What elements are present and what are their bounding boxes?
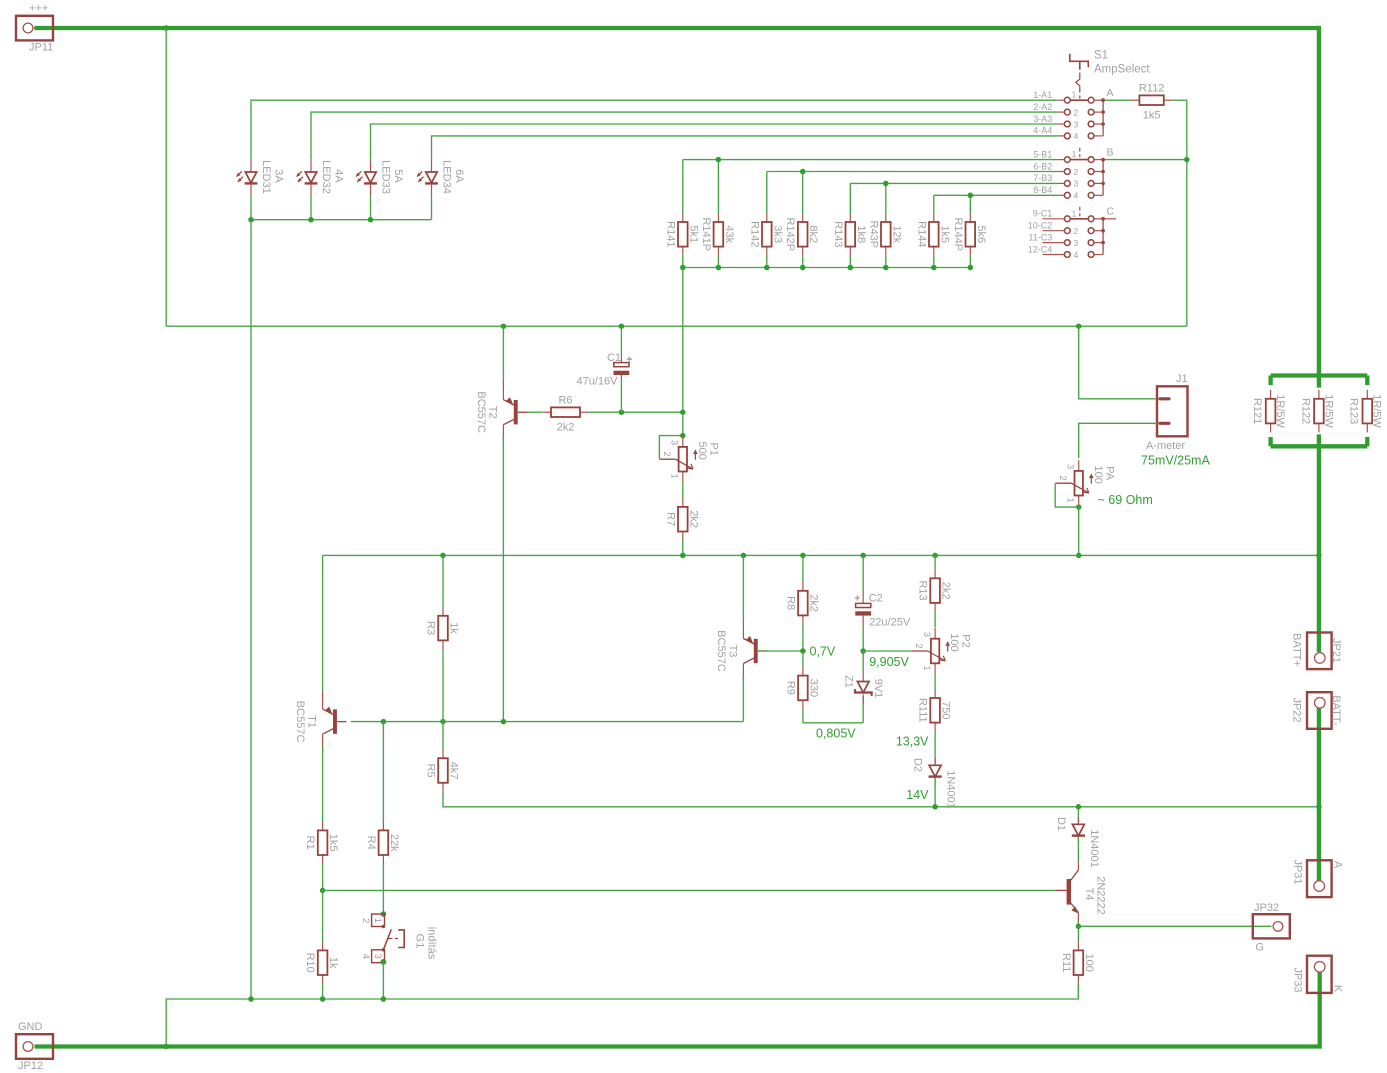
- wire R111 bottom to D2: [934, 732, 936, 765]
- resistor R43P 12k: [885, 213, 887, 222]
- wire shunt top bus: [1271, 373, 1368, 377]
- resistor R8 2k2: [802, 582, 804, 591]
- junction lower rail R8: [800, 553, 806, 559]
- svg-text:1N4001: 1N4001: [945, 770, 957, 809]
- wire R144 top: [933, 195, 935, 213]
- connector JP31 A: [1307, 860, 1332, 897]
- svg-text:2: 2: [1074, 226, 1079, 236]
- wire shunt bottom bus: [1271, 444, 1368, 448]
- switch contact 4-A4: [1057, 135, 1064, 137]
- wire R43P top: [885, 183, 887, 213]
- svg-text:3: 3: [1064, 464, 1075, 469]
- junction R43P top: [883, 181, 889, 187]
- wire LED cathode bus: [251, 219, 432, 221]
- transistor T1 BC557C: [333, 709, 337, 733]
- svg-text:3: 3: [1074, 119, 1079, 129]
- wire +V right vertical lower to JP21: [1317, 434, 1321, 652]
- resistor R123 1R/5W: [1366, 390, 1368, 399]
- svg-text:10-C2: 10-C2: [1028, 221, 1053, 231]
- wire PA wiper bypass to pin1: [1055, 483, 1079, 507]
- svg-text:1R/5W: 1R/5W: [1274, 394, 1286, 428]
- svg-text:JP31: JP31: [1292, 859, 1304, 884]
- resistor R3 1k: [442, 607, 444, 616]
- svg-text:GND: GND: [18, 1021, 43, 1033]
- svg-text:R112: R112: [1139, 83, 1164, 95]
- wire shunt top bus left stub: [1268, 376, 1272, 386]
- wire J1 pin2 to PA pin3: [1079, 423, 1157, 458]
- wire B output to right vertical: [1105, 159, 1187, 161]
- svg-text:A: A: [1107, 87, 1114, 99]
- junction R144P top: [968, 193, 974, 199]
- wire R13 bottom to P2: [934, 612, 936, 628]
- wire LED bus down to GND bus: [250, 220, 252, 999]
- wire R143 top: [849, 183, 851, 213]
- switch S1 actuator symbol: [1070, 54, 1089, 70]
- diode D1 1N4001: [1077, 817, 1079, 825]
- svg-text:3-A3: 3-A3: [1033, 114, 1052, 124]
- svg-text:R4: R4: [365, 836, 377, 850]
- wire network output down to P1: [682, 268, 684, 436]
- svg-text:K: K: [1332, 985, 1344, 993]
- wire R142 bottom: [766, 256, 768, 268]
- wire 2-A2 net to LED32: [311, 112, 1057, 160]
- resistor R141P 43k: [717, 213, 719, 222]
- wire net 7-B3: [850, 182, 1057, 184]
- resistor R142 3k3: [766, 213, 768, 222]
- svg-text:2: 2: [1057, 476, 1068, 481]
- switch contact 10-C2: [1043, 230, 1065, 232]
- junction network bus R143: [848, 265, 854, 271]
- wire mid rail to J1 pin1: [1079, 326, 1157, 399]
- svg-text:R123: R123: [1348, 398, 1360, 424]
- svg-text:T3: T3: [726, 645, 738, 658]
- switch contact 9-C1: [1043, 218, 1065, 220]
- switch contact 2-A2: [1057, 111, 1064, 113]
- svg-text:2k2: 2k2: [687, 510, 699, 528]
- capacitor C1 47u/16V: [620, 358, 622, 363]
- wire base drive rail to T4: [323, 889, 1056, 891]
- svg-text:2: 2: [360, 918, 371, 923]
- wire GND bottom rail: [35, 1044, 1320, 1048]
- svg-text:R7: R7: [664, 512, 676, 526]
- switch common bar C: [1102, 219, 1104, 255]
- junction network bus R142: [764, 265, 770, 271]
- zener Z1 9V1: [862, 671, 864, 682]
- svg-text:~ 69 Ohm: ~ 69 Ohm: [1098, 493, 1153, 507]
- svg-text:JP33: JP33: [1292, 967, 1304, 992]
- wire R13 top: [934, 555, 936, 569]
- junction lower rail R13: [932, 553, 938, 559]
- LED31 3A: [250, 160, 252, 172]
- wire R141 top: [682, 160, 684, 214]
- svg-text:R5: R5: [425, 763, 437, 777]
- svg-text:1: 1: [921, 665, 932, 670]
- wire T4 emitter to R11: [1077, 926, 1079, 942]
- wire P1 wiper bypass: [659, 436, 682, 460]
- stub C output open: [1103, 218, 1116, 220]
- wire R6 to C1 node: [589, 411, 683, 413]
- svg-text:8-B4: 8-B4: [1033, 185, 1052, 195]
- svg-text:JP11: JP11: [29, 42, 53, 54]
- svg-text:7-B3: 7-B3: [1033, 173, 1052, 183]
- trimmer P2 100: [934, 628, 936, 639]
- resistor R9 330: [802, 667, 804, 676]
- wire JP22 to A-rail vertical: [1317, 708, 1321, 807]
- svg-text:2: 2: [1074, 167, 1079, 177]
- svg-text:JP21: JP21: [1330, 638, 1342, 663]
- junction network bus R43P: [883, 265, 889, 271]
- wire T3 emitter from lower rail: [742, 555, 744, 620]
- svg-text:2k2: 2k2: [557, 421, 575, 433]
- svg-text:R11: R11: [1060, 953, 1072, 972]
- wire left vertical from top rail: [165, 28, 167, 326]
- svg-text:330: 330: [807, 679, 819, 697]
- wire R11 bottom to GND bus: [1077, 984, 1079, 999]
- svg-text:R10: R10: [304, 953, 316, 973]
- wire T3 base to R8/R9 node: [757, 650, 803, 652]
- junction T4 emitter node: [1076, 924, 1082, 930]
- wire C1 bottom to R6 node: [620, 381, 622, 412]
- wire R5 top from base rail: [442, 722, 444, 750]
- connector JP21 BATT+: [1307, 633, 1332, 670]
- wire Z1 bottom: [862, 695, 864, 723]
- wire node to P2 pin2: [863, 650, 912, 652]
- svg-text:3: 3: [1074, 238, 1079, 248]
- junction D-rail D2: [932, 804, 938, 810]
- svg-text:LED33: LED33: [380, 160, 392, 194]
- svg-text:22u/25V: 22u/25V: [869, 617, 911, 629]
- junction bottom bus G1: [381, 996, 387, 1002]
- svg-text:0,805V: 0,805V: [816, 727, 856, 741]
- wire R3 top: [442, 555, 444, 607]
- resistor R5 4k7: [442, 749, 444, 758]
- connector JP32 G: [1253, 914, 1290, 938]
- junction 0,7V node: [800, 648, 806, 654]
- svg-text:9-C1: 9-C1: [1033, 209, 1053, 219]
- svg-text:6-B2: 6-B2: [1033, 161, 1052, 171]
- svg-text:1N4001: 1N4001: [1088, 829, 1100, 868]
- svg-text:4: 4: [1074, 250, 1079, 260]
- svg-text:R8: R8: [784, 596, 796, 610]
- switch contact 8-B4: [1057, 194, 1064, 196]
- svg-text:9,905V: 9,905V: [869, 655, 909, 669]
- svg-text:R6: R6: [558, 395, 572, 407]
- svg-text:R142P: R142P: [784, 217, 796, 251]
- svg-text:P2: P2: [960, 634, 972, 647]
- trimmer PA 100: [1078, 460, 1080, 471]
- resistor R111 750: [934, 689, 936, 698]
- resistor R112 1k5: [1131, 99, 1140, 101]
- switch contact 5-B1: [1057, 159, 1064, 161]
- junction lower rail R7: [680, 553, 686, 559]
- switch contact 1-A1: [1057, 99, 1064, 101]
- switch contact 6-B2: [1057, 171, 1064, 173]
- wire emitter node to JP32: [1078, 925, 1271, 927]
- svg-text:43k: 43k: [723, 225, 735, 243]
- wire right vertical down to mid rail: [1186, 100, 1188, 326]
- svg-text:R13: R13: [917, 581, 929, 601]
- wire net 5-B1: [683, 159, 1058, 161]
- LED32 4A: [310, 160, 312, 172]
- svg-text:3: 3: [372, 954, 383, 959]
- svg-text:JP22: JP22: [1291, 697, 1303, 722]
- svg-text:R143: R143: [832, 221, 844, 247]
- svg-text:4-A4: 4-A4: [1033, 126, 1052, 136]
- svg-text:100: 100: [1092, 466, 1104, 484]
- wire 4-A4 net to LED34: [432, 136, 1058, 160]
- svg-text:G: G: [1255, 942, 1264, 954]
- wire net 8-B4: [934, 194, 1058, 196]
- svg-text:1k5: 1k5: [1143, 109, 1161, 121]
- wire R144 bottom: [933, 256, 935, 268]
- junction lower rail R3: [440, 553, 446, 559]
- connector JP33 K: [1307, 956, 1332, 993]
- junction R1/R10 node: [320, 888, 326, 894]
- trimmer P1 500: [682, 436, 684, 447]
- wire R144P bottom: [969, 256, 971, 268]
- wire R112 to right vertical: [1172, 99, 1187, 101]
- svg-text:C2: C2: [869, 593, 883, 605]
- wire shunt bottom right stub: [1365, 437, 1369, 446]
- svg-text:JP32: JP32: [1254, 902, 1279, 914]
- svg-text:8k2: 8k2: [807, 225, 819, 243]
- wire R8 top: [802, 555, 804, 582]
- resistor R6 2k2: [543, 411, 552, 413]
- svg-text:R141P: R141P: [700, 217, 712, 251]
- svg-text:1: 1: [1072, 208, 1077, 218]
- junction 9,905V node: [860, 648, 866, 654]
- resistor R141 5k1: [682, 213, 684, 222]
- wire GND right vertical to JP33: [1318, 971, 1322, 1049]
- wire C2 bottom to 9,905V node: [862, 628, 864, 652]
- svg-text:4: 4: [360, 954, 371, 959]
- junction R142P top: [800, 169, 806, 175]
- svg-text:R9: R9: [784, 681, 796, 695]
- wire net 6-B2: [767, 171, 1058, 173]
- wire P2 pin1 to R111: [934, 674, 936, 690]
- wire R1 bottom: [322, 864, 324, 890]
- resistor R121 1R/5W: [1270, 390, 1272, 399]
- svg-text:BC557C: BC557C: [294, 701, 306, 743]
- svg-text:D2: D2: [912, 758, 924, 772]
- svg-text:R121: R121: [1251, 398, 1263, 424]
- svg-text:1-A1: 1-A1: [1033, 90, 1052, 100]
- wire R9 bottom: [802, 709, 804, 723]
- wire R8 bottom to node: [802, 624, 804, 651]
- svg-text:1k8: 1k8: [855, 225, 867, 243]
- LED34 6A: [431, 160, 433, 172]
- svg-text:1k: 1k: [327, 957, 339, 969]
- resistor R122 1R/5W: [1318, 390, 1320, 399]
- junction D-rail right bus: [1316, 804, 1322, 810]
- junction mid rail C1: [619, 323, 625, 329]
- wire C1 top from mid rail: [620, 326, 622, 358]
- junction PA pin1 node: [1076, 504, 1082, 510]
- svg-text:P1: P1: [707, 442, 719, 455]
- svg-text:1k: 1k: [448, 622, 460, 634]
- svg-text:D1: D1: [1055, 817, 1067, 831]
- svg-text:R141: R141: [664, 221, 676, 247]
- junction network bus R141: [680, 265, 686, 271]
- svg-text:R111: R111: [917, 698, 929, 723]
- connector J1 A-meter: [1157, 386, 1188, 436]
- junction lower rail PA: [1076, 553, 1082, 559]
- svg-text:3: 3: [669, 440, 680, 445]
- resistor R144 1k5: [933, 213, 935, 222]
- svg-text:LED32: LED32: [320, 160, 332, 194]
- svg-text:100: 100: [1083, 954, 1095, 972]
- junction network bus R144P: [968, 265, 974, 271]
- svg-text:4A: 4A: [333, 169, 345, 183]
- svg-text:5k6: 5k6: [975, 225, 987, 243]
- svg-text:2k2: 2k2: [807, 594, 819, 612]
- svg-text:3: 3: [921, 632, 932, 637]
- svg-text:+++: +++: [29, 3, 48, 15]
- svg-text:100: 100: [948, 633, 960, 651]
- resistor R143 1k8: [849, 213, 851, 222]
- svg-text:22k: 22k: [388, 834, 400, 852]
- resistor R4 22k: [382, 821, 384, 830]
- wire R10 top: [322, 890, 324, 941]
- svg-text:0,7V: 0,7V: [810, 645, 836, 659]
- junction B output: [1184, 157, 1190, 163]
- wire R9/Z1 bottom bus 0,805V: [803, 722, 863, 724]
- junction network bus R142P: [800, 265, 806, 271]
- svg-text:BC557C: BC557C: [475, 391, 487, 433]
- svg-text:1k5: 1k5: [938, 225, 950, 243]
- svg-text:R3: R3: [425, 621, 437, 635]
- svg-text:R144P: R144P: [952, 217, 964, 251]
- wire shunt top bus right stub: [1365, 376, 1369, 386]
- wire T1 emitter from lower rail: [322, 555, 324, 691]
- svg-text:T4: T4: [1083, 888, 1095, 901]
- svg-text:LED31: LED31: [260, 160, 272, 194]
- resistor R10 1k: [322, 941, 324, 950]
- svg-text:4: 4: [1074, 191, 1079, 201]
- svg-text:1: 1: [1064, 498, 1075, 503]
- junction GND rail left riser: [164, 1044, 169, 1049]
- svg-text:2-A2: 2-A2: [1033, 102, 1052, 112]
- wire bottom thin bus: [166, 984, 1078, 1047]
- junction P1 pin3 node: [680, 433, 686, 439]
- wire T1 collector to R1: [322, 747, 324, 822]
- svg-text:R142: R142: [748, 221, 760, 247]
- junction base rail T2 collector: [501, 719, 507, 725]
- wire 1-A1 net to LED31: [251, 100, 1057, 160]
- junction P1 top node: [680, 409, 686, 415]
- svg-text:12-C4: 12-C4: [1028, 244, 1053, 254]
- junction top rail / left vertical: [163, 25, 169, 31]
- LED33 5A: [370, 160, 372, 172]
- wire R43P bottom: [885, 256, 887, 268]
- wire +V top rail: [35, 26, 1319, 30]
- wire R142 top: [766, 172, 768, 214]
- resistor R142P 8k2: [802, 213, 804, 222]
- wire R4 top from base rail: [382, 722, 384, 822]
- junction R141P top: [716, 157, 722, 163]
- junction mid rail A-meter column: [1076, 323, 1082, 329]
- svg-text:12k: 12k: [890, 225, 902, 243]
- junction lower rail / right bus: [1316, 553, 1322, 559]
- wire R3 bottom to base rail: [442, 649, 444, 721]
- wire R141P top: [717, 160, 719, 214]
- wire R10 bottom: [322, 984, 324, 999]
- resistor R13 2k2: [934, 569, 936, 578]
- resistor R7 2k2: [682, 498, 684, 507]
- wire 3-A3 net to LED33: [371, 124, 1058, 160]
- svg-text:T2: T2: [486, 406, 498, 419]
- wire R4 bottom to G1: [382, 864, 384, 914]
- svg-text:B: B: [1107, 146, 1114, 158]
- svg-text:5-B1: 5-B1: [1033, 149, 1052, 159]
- connector JP11: [16, 16, 53, 41]
- svg-text:S1: S1: [1094, 50, 1108, 62]
- svg-text:G1: G1: [414, 934, 426, 949]
- svg-text:R122: R122: [1299, 398, 1311, 424]
- svg-text:PA: PA: [1103, 466, 1115, 481]
- svg-text:indítás: indítás: [426, 927, 438, 960]
- wire R5 bottom to D-rail: [443, 792, 1078, 807]
- switch common bar B: [1102, 160, 1104, 196]
- junction lower rail C2: [860, 553, 866, 559]
- wire D1 top: [1077, 807, 1079, 823]
- svg-text:A-meter: A-meter: [1146, 440, 1185, 452]
- wire D rail right of D2: [1078, 806, 1319, 808]
- switch common bar A: [1102, 100, 1104, 136]
- svg-text:750: 750: [940, 701, 952, 719]
- svg-text:J1: J1: [1176, 373, 1188, 385]
- svg-text:13,3V: 13,3V: [896, 735, 929, 749]
- wire T1 base rail: [351, 721, 743, 723]
- svg-text:5k1: 5k1: [687, 225, 699, 243]
- svg-text:500: 500: [696, 442, 708, 460]
- wire Z1 top: [862, 651, 864, 671]
- svg-text:1: 1: [669, 474, 680, 479]
- resistor R1 1k5: [322, 821, 324, 830]
- wire T2 base to R6: [527, 411, 542, 413]
- junction base rail R3/R5: [440, 719, 446, 725]
- svg-text:1: 1: [372, 918, 383, 923]
- junction mid rail T2 emitter: [501, 323, 507, 329]
- svg-text:JP12: JP12: [18, 1060, 43, 1072]
- resistor R11 100: [1077, 941, 1079, 950]
- junction lower rail T3: [741, 553, 747, 559]
- svg-text:R144: R144: [915, 221, 927, 247]
- capacitor C2 22u/25V: [862, 591, 864, 604]
- svg-text:C1: C1: [607, 352, 621, 364]
- svg-text:AmpSelect: AmpSelect: [1094, 64, 1150, 76]
- junction bottom bus R10: [320, 996, 326, 1002]
- svg-text:3A: 3A: [273, 169, 285, 183]
- junction R6/C1 node: [619, 409, 625, 415]
- wire R142P top: [802, 172, 804, 214]
- svg-text:2N2222: 2N2222: [1095, 876, 1107, 915]
- svg-text:BATT+: BATT+: [1291, 633, 1303, 667]
- svg-text:14V: 14V: [906, 788, 929, 802]
- svg-text:LED34: LED34: [441, 160, 453, 194]
- switch contact 7-B3: [1057, 182, 1064, 184]
- junction LED33 bus: [368, 217, 374, 223]
- svg-text:3: 3: [1074, 179, 1079, 189]
- svg-text:1: 1: [1072, 149, 1077, 159]
- wire network bottom bus: [683, 267, 971, 269]
- switch S1 lever dashed link: [1079, 73, 1081, 99]
- junction LED31 bus: [248, 217, 254, 223]
- junction bottom bus LED column: [248, 996, 254, 1002]
- svg-text:C: C: [1107, 206, 1115, 218]
- resistor R144P 5k6: [969, 213, 971, 222]
- svg-text:2: 2: [1074, 107, 1079, 117]
